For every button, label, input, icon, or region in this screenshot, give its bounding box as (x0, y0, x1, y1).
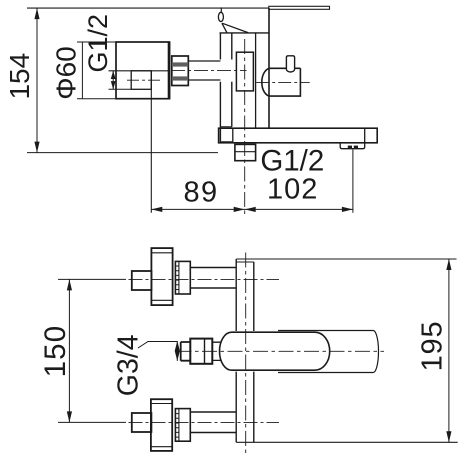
phi60 bracket bottom tick (77, 98, 116, 100)
inlet pipe axis centerline (171, 70, 247, 72)
svg-text:102: 102 (267, 173, 318, 205)
connection nut knurl band lower (172, 76, 189, 80)
handle lever blade (269, 6, 330, 9)
body capsule axis centerline (177, 350, 385, 352)
wall escutcheon bottom edge (220, 126, 231, 128)
dimension 195 line (448, 259, 450, 442)
G3/4 arrow down (175, 351, 180, 361)
dimension 154 extension line bottom (27, 152, 218, 154)
bottom union tail square (132, 413, 152, 432)
G1/2 thread bottom extension (109, 88, 132, 90)
G1/2 callout dimension line (112, 71, 114, 90)
G1/2 callout arrow up (111, 71, 116, 79)
check valve boss right edge (232, 128, 234, 142)
cartridge vertical centerline (244, 39, 246, 216)
spout plate end cap line (364, 128, 366, 143)
svg-text:G1/2: G1/2 (83, 14, 113, 73)
spout nose capsule (262, 68, 301, 96)
svg-text:G3/4: G3/4 (113, 334, 145, 396)
svg-text:150: 150 (39, 325, 72, 378)
svg-text:Φ60: Φ60 (51, 46, 82, 99)
spout base plate (219, 128, 378, 143)
spout nose axis centerline (256, 81, 310, 83)
wall escutcheon left edge (gap at inlet pipe) (219, 33, 221, 142)
aerator screw marks (348, 146, 352, 149)
bottom union axis extension (58, 421, 126, 423)
diverter knob (286, 56, 294, 72)
handle body front tick (222, 23, 227, 33)
dimension 195 extension bottom (merges with plate bottom edge) (236, 441, 458, 443)
dimension 150 arrow bottom (67, 411, 72, 422)
top union flange (151, 248, 172, 305)
bottom union nut (175, 409, 190, 442)
spout plate outline (top view) (278, 331, 379, 373)
center inlet nut inner line (204, 339, 206, 364)
bottom union pipe (190, 412, 236, 433)
top union axis extension (58, 278, 126, 280)
bottom union flange end lines (151, 404, 172, 447)
connection nut body (172, 56, 189, 86)
connection nut knurl band upper (172, 62, 189, 66)
phi60 handle axis centerline (127, 79, 163, 81)
phi60 handle box thick right edge (168, 42, 171, 99)
check valve boss bottom edge (220, 141, 232, 143)
dimension 154 arrow top (34, 8, 39, 19)
wall plate bar left edge (gaps at body capsule) (235, 259, 237, 442)
bottom union nut knurl (175, 414, 179, 438)
dimension 89 extension line (150, 71, 152, 213)
dimension 89 arrow left (151, 207, 162, 212)
shower outlet nipple (235, 144, 256, 160)
dimension 195 arrow top (446, 259, 451, 270)
dimension 154 extension line top (merges with handle top edge) (27, 7, 269, 9)
svg-text:195: 195 (417, 321, 449, 372)
handle body slanted front edge (222, 23, 248, 32)
dimension 89/102 line (151, 208, 353, 210)
aerator foot (340, 143, 365, 149)
handle lever pivot ellipse (218, 12, 223, 21)
dimension 102 arrow middle-left (245, 207, 256, 212)
valve body inner vertical (255, 32, 257, 128)
svg-text:G1/2: G1/2 (260, 144, 324, 177)
phi60 handle box (116, 42, 170, 99)
wall plate bar right edge (253, 262, 255, 442)
G3/4 leader line (138, 342, 177, 349)
svg-text:154: 154 (4, 53, 35, 100)
dimension 89 arrow middle-right (234, 207, 245, 212)
shower outlet thread line (235, 151, 256, 153)
top union pipe (190, 268, 236, 289)
handle/body right edge (268, 8, 270, 128)
dimension 195 extension top (merges with plate top edge) (236, 258, 456, 260)
top union tail square (132, 271, 152, 290)
dimension 150 arrow top (67, 279, 72, 290)
svg-text:89: 89 (183, 177, 218, 209)
G1/2 thread step line (109, 70, 170, 72)
phi60 bracket top tick (77, 41, 116, 43)
center inlet nut (190, 339, 212, 364)
inlet pipe top line (188, 60, 220, 62)
G1/2 thread rectangle (131, 71, 151, 90)
center inlet collar (212, 342, 221, 360)
dimension 150 line (68, 279, 70, 422)
center inlet stub (181, 342, 191, 361)
wall escutcheon right edge (231, 33, 233, 127)
top union nut (175, 261, 190, 294)
bottom union axis centerline (129, 421, 280, 423)
G3/4 diameter line (176, 341, 178, 361)
dimension 102 extension line right (352, 150, 354, 213)
body capsule (top view) (220, 332, 330, 370)
phi60 bracket line (81, 42, 83, 99)
dimension 154 line (36, 8, 38, 153)
bottom union flange (151, 399, 172, 451)
dimension 154 arrow bottom (34, 142, 39, 153)
wall plate vertical centerline (245, 253, 247, 454)
G1/2 callout arrow down (111, 81, 116, 89)
body top edge under handle (220, 32, 270, 34)
dimension 195 arrow bottom (446, 431, 451, 442)
G3/4 arrow up (175, 341, 180, 351)
top union nut knurl (175, 266, 179, 290)
wall plate inner top line (236, 261, 254, 263)
top union flange end lines (151, 253, 172, 300)
top union axis centerline (129, 278, 280, 280)
dimension 102 arrow right (342, 207, 353, 212)
inlet pipe bottom line (188, 79, 220, 81)
cartridge inner rectangle (236, 52, 253, 91)
